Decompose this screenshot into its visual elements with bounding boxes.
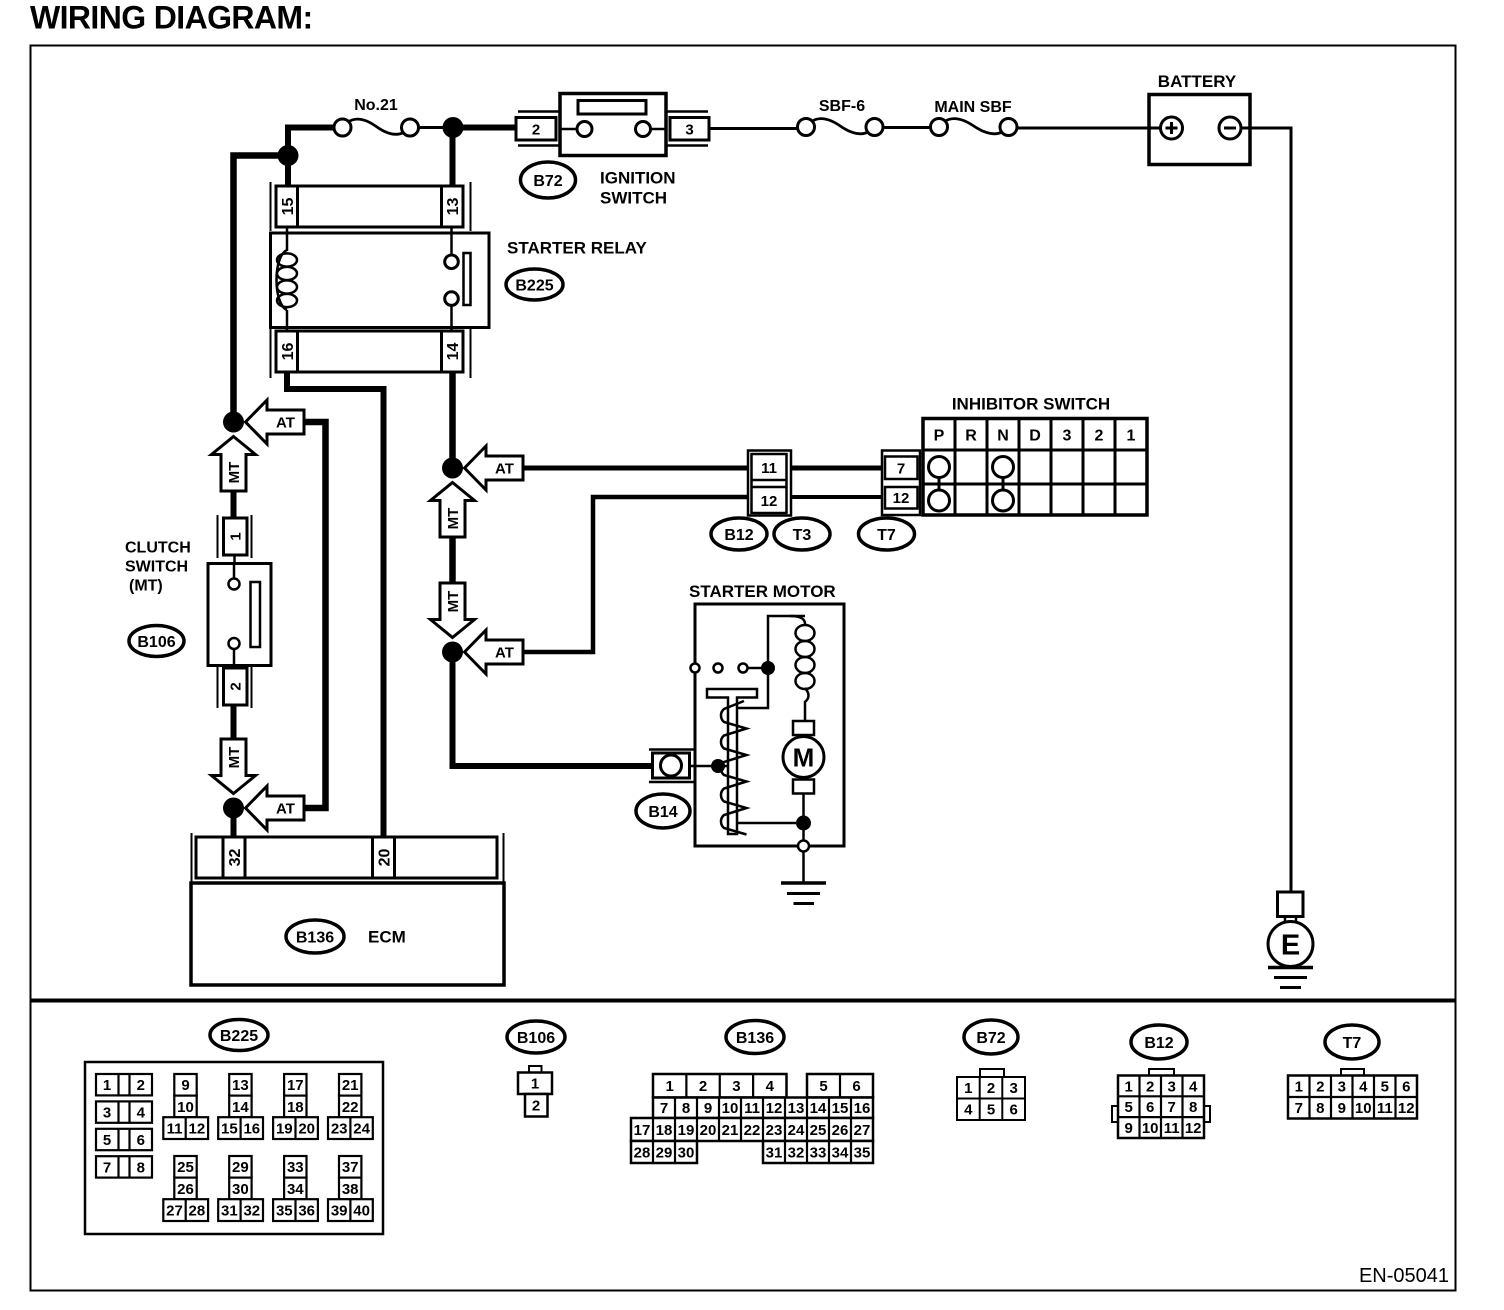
svg-text:4: 4 [1189, 1078, 1198, 1095]
svg-text:T3: T3 [793, 527, 812, 544]
svg-text:12: 12 [1398, 1100, 1415, 1117]
svg-text:B72: B72 [976, 1030, 1005, 1047]
svg-text:34: 34 [832, 1144, 849, 1161]
svg-text:5: 5 [987, 1102, 995, 1119]
svg-text:4: 4 [1359, 1079, 1368, 1096]
svg-text:14: 14 [232, 1099, 249, 1116]
svg-text:13: 13 [445, 198, 462, 216]
svg-text:34: 34 [287, 1181, 304, 1198]
svg-text:35: 35 [854, 1144, 871, 1161]
wire junction to ECM pin 32 [231, 808, 237, 840]
node junction AT/MT lower [442, 642, 463, 663]
svg-text:B136: B136 [296, 929, 334, 946]
wire branch to clutch column [234, 156, 289, 423]
svg-text:22: 22 [744, 1122, 761, 1139]
svg-text:40: 40 [353, 1203, 370, 1220]
wire ignition to SBF-6 [709, 127, 798, 130]
svg-text:2: 2 [987, 1080, 995, 1097]
svg-text:2: 2 [532, 1098, 540, 1115]
wire junction to plunger top [737, 672, 768, 708]
svg-text:7: 7 [1295, 1100, 1303, 1117]
svg-text:31: 31 [766, 1144, 783, 1161]
svg-text:17: 17 [634, 1122, 651, 1139]
svg-text:1: 1 [227, 532, 244, 540]
svg-text:STARTER RELAY: STARTER RELAY [507, 239, 647, 258]
svg-text:3: 3 [1168, 1078, 1176, 1095]
svg-text:12: 12 [893, 490, 910, 507]
svg-text:1: 1 [964, 1080, 972, 1097]
node junction motor ground [796, 816, 811, 831]
svg-text:3: 3 [103, 1105, 111, 1122]
svg-text:25: 25 [177, 1159, 194, 1176]
svg-text:AT: AT [276, 800, 295, 817]
connector B225 pinout [85, 1062, 383, 1234]
arrow AT clutch bottom [246, 786, 305, 830]
battery [1149, 95, 1250, 165]
svg-text:32: 32 [788, 1144, 805, 1161]
svg-text:20: 20 [700, 1122, 717, 1139]
arrow MT down to ECM junction [212, 739, 256, 794]
wire junction down to relay pin 13 [450, 131, 456, 190]
svg-text:STARTER MOTOR: STARTER MOTOR [689, 582, 836, 601]
svg-text:23: 23 [766, 1122, 783, 1139]
svg-text:ECM: ECM [368, 928, 406, 947]
ground starter motor [781, 881, 826, 885]
svg-text:5: 5 [1381, 1079, 1389, 1096]
svg-text:6: 6 [1010, 1102, 1018, 1119]
svg-text:2: 2 [1095, 427, 1104, 444]
wire fuse No.21 feed to relay pin 15 [288, 128, 334, 191]
connector T7 pins 7 12 [882, 451, 920, 516]
svg-text:No.21: No.21 [354, 97, 398, 114]
label B14 [636, 794, 690, 828]
arrow AT lower middle [465, 630, 524, 674]
node junction left feed [278, 145, 299, 166]
node junction AT/MT upper [442, 458, 463, 479]
svg-text:2: 2 [137, 1077, 145, 1094]
svg-text:IGNITION: IGNITION [600, 169, 676, 188]
plunger [707, 689, 757, 834]
connector B14 [649, 748, 694, 751]
svg-text:33: 33 [810, 1144, 827, 1161]
starter motor box [695, 604, 844, 846]
svg-text:16: 16 [243, 1121, 260, 1138]
svg-text:5: 5 [819, 1078, 827, 1095]
svg-text:R: R [965, 427, 977, 444]
wire pin1 to switch [233, 555, 236, 566]
svg-text:10: 10 [1142, 1120, 1159, 1137]
svg-text:5: 5 [103, 1132, 111, 1149]
svg-text:4: 4 [766, 1078, 775, 1095]
svg-text:3: 3 [732, 1078, 740, 1095]
svg-text:B106: B106 [517, 1030, 555, 1047]
svg-text:31: 31 [221, 1203, 238, 1220]
svg-text:21: 21 [342, 1077, 359, 1094]
connector rails clutch pin 1 [217, 515, 219, 558]
inhibitor switch contact circles P [929, 457, 950, 478]
svg-text:1: 1 [531, 1076, 539, 1093]
wire AT lower to inhibitor connector pin 12 [523, 497, 750, 652]
svg-text:15: 15 [280, 198, 297, 216]
fuse MAIN SBF [945, 119, 1004, 134]
wire plunger to motor ground node [737, 822, 796, 825]
svg-text:5: 5 [1125, 1099, 1133, 1116]
svg-text:3: 3 [1338, 1079, 1346, 1096]
svg-text:24: 24 [788, 1122, 805, 1139]
relay contacts [450, 227, 453, 255]
svg-text:7: 7 [897, 460, 905, 477]
svg-text:1: 1 [1125, 1078, 1133, 1095]
svg-text:21: 21 [722, 1122, 739, 1139]
svg-text:B14: B14 [648, 804, 677, 821]
svg-text:B225: B225 [220, 1028, 258, 1045]
svg-text:11: 11 [1164, 1120, 1180, 1137]
node junction clutch bottom [223, 798, 244, 819]
wire fuse to junction [419, 126, 448, 129]
pin 1 clutch switch [224, 518, 248, 555]
wire motor to ground [802, 794, 805, 842]
label B225 connector [210, 1020, 268, 1051]
svg-text:2: 2 [1316, 1079, 1324, 1096]
svg-text:(MT): (MT) [129, 577, 163, 594]
svg-text:12: 12 [1185, 1120, 1202, 1137]
svg-text:SWITCH: SWITCH [600, 189, 667, 208]
motor M [793, 721, 814, 735]
wire junction down to starter motor B14 [453, 652, 654, 766]
starter relay B225 coil-side connector pins 15 13 [270, 182, 272, 231]
wire MT section [449, 537, 456, 602]
starter motor contact circles [691, 664, 700, 673]
svg-text:15: 15 [832, 1100, 849, 1117]
label B12 [711, 518, 767, 550]
svg-text:7: 7 [1168, 1099, 1176, 1116]
wire contact junction to solenoid coil [768, 616, 805, 668]
starter relay connector pins 16 14 [270, 329, 272, 378]
svg-text:2: 2 [1146, 1078, 1154, 1095]
svg-text:B72: B72 [533, 173, 562, 190]
wire MT to clutch pin 1 [231, 491, 237, 520]
svg-text:38: 38 [342, 1181, 359, 1198]
label B136 connector [726, 1021, 784, 1054]
connector B136 pinout [653, 1074, 787, 1098]
svg-text:AT: AT [276, 414, 295, 431]
svg-text:12: 12 [766, 1100, 783, 1117]
label B225 relay [506, 269, 563, 300]
svg-text:18: 18 [656, 1122, 673, 1139]
svg-text:19: 19 [678, 1122, 695, 1139]
svg-text:2: 2 [699, 1078, 707, 1095]
connector B106 pinout [529, 1066, 542, 1073]
ignition switch body B72 [560, 94, 666, 156]
svg-text:8: 8 [137, 1159, 145, 1176]
svg-text:P: P [934, 427, 945, 444]
label B72 [521, 162, 576, 198]
wire AT to inhibitor connector pin 11 [523, 466, 750, 471]
svg-text:35: 35 [276, 1203, 293, 1220]
svg-text:6: 6 [137, 1132, 145, 1149]
label B106 clutch [129, 626, 184, 657]
svg-text:EN-05041: EN-05041 [1359, 1265, 1449, 1287]
separator line [31, 999, 1456, 1003]
svg-text:9: 9 [181, 1077, 189, 1094]
svg-text:19: 19 [276, 1121, 293, 1138]
svg-text:29: 29 [656, 1144, 673, 1161]
svg-text:INHIBITOR SWITCH: INHIBITOR SWITCH [952, 395, 1110, 414]
svg-text:1: 1 [666, 1078, 674, 1095]
svg-text:M: M [793, 742, 815, 772]
svg-text:MT: MT [226, 747, 243, 769]
connector rails ignition pin 2 [518, 110, 560, 113]
svg-text:1: 1 [1127, 427, 1136, 444]
svg-text:T7: T7 [877, 527, 896, 544]
svg-text:11: 11 [167, 1121, 183, 1138]
wire connector T3 to T7 row 12 [789, 495, 886, 499]
pin 2 ignition switch [516, 118, 556, 141]
pin 2 clutch switch [224, 668, 248, 705]
svg-text:14: 14 [810, 1100, 827, 1117]
connector rails clutch pin 2 [217, 665, 219, 708]
wire relay pin 16 to ECM pin 20 [287, 372, 384, 840]
svg-text:17: 17 [287, 1077, 304, 1094]
arrow MT down into clutch [212, 437, 256, 492]
clutch switch body B106 [208, 564, 271, 666]
label B12 connector [1131, 1025, 1187, 1059]
wire MAIN SBF to battery [1017, 127, 1150, 130]
svg-text:30: 30 [232, 1181, 249, 1198]
svg-text:AT: AT [495, 460, 514, 477]
svg-text:14: 14 [445, 343, 462, 361]
label B72 connector [964, 1020, 1018, 1054]
svg-text:7: 7 [660, 1100, 668, 1117]
svg-text:3: 3 [685, 121, 693, 138]
node junction at ignition feed [443, 117, 464, 138]
arrow MT down middle [431, 583, 475, 638]
svg-text:27: 27 [854, 1122, 871, 1139]
svg-text:4: 4 [964, 1102, 973, 1119]
svg-text:CLUTCH: CLUTCH [125, 539, 191, 556]
label T7 connector [1325, 1025, 1379, 1059]
wire battery negative to ground E [1241, 128, 1291, 893]
svg-text:T7: T7 [1343, 1035, 1362, 1052]
label T3 [774, 518, 830, 550]
svg-text:B136: B136 [736, 1030, 774, 1047]
svg-text:1: 1 [103, 1077, 111, 1094]
svg-text:13: 13 [788, 1100, 805, 1117]
svg-text:4: 4 [137, 1105, 146, 1122]
label T7 [859, 518, 915, 550]
wire SBF-6 to MAIN SBF [883, 126, 931, 129]
svg-text:22: 22 [342, 1099, 359, 1116]
svg-text:2: 2 [227, 682, 244, 690]
connector B72 pinout [980, 1069, 1004, 1077]
node junction solenoid plunger [711, 759, 725, 773]
svg-text:36: 36 [298, 1203, 315, 1220]
svg-text:20: 20 [298, 1121, 315, 1138]
svg-text:6: 6 [1146, 1099, 1154, 1116]
svg-text:MT: MT [445, 508, 462, 530]
arrow MT up middle [431, 483, 475, 538]
svg-text:1: 1 [1295, 1079, 1303, 1096]
svg-text:MT: MT [445, 591, 462, 613]
svg-text:B106: B106 [137, 634, 175, 651]
svg-text:32: 32 [227, 849, 244, 867]
svg-text:20: 20 [376, 849, 393, 867]
svg-text:MAIN SBF: MAIN SBF [934, 99, 1012, 116]
svg-text:24: 24 [353, 1121, 370, 1138]
ground E [1278, 892, 1304, 917]
svg-text:29: 29 [232, 1159, 249, 1176]
svg-text:SBF-6: SBF-6 [819, 98, 865, 115]
svg-text:26: 26 [177, 1181, 194, 1198]
svg-text:10: 10 [1355, 1100, 1372, 1117]
node junction contact to coil [761, 661, 775, 675]
wire relay pin 14 down [449, 372, 456, 468]
relay coil [286, 227, 289, 251]
svg-text:13: 13 [232, 1077, 249, 1094]
svg-text:33: 33 [287, 1159, 304, 1176]
svg-text:11: 11 [1377, 1100, 1393, 1117]
pin 3 ignition switch [670, 118, 709, 141]
svg-text:10: 10 [177, 1099, 194, 1116]
svg-text:8: 8 [1189, 1099, 1197, 1116]
svg-text:B12: B12 [724, 527, 753, 544]
svg-text:16: 16 [280, 343, 297, 361]
label B136 ECM [286, 920, 344, 953]
svg-text:16: 16 [854, 1100, 871, 1117]
svg-text:12: 12 [761, 493, 778, 510]
svg-text:12: 12 [189, 1121, 206, 1138]
fuse SBF-6 [812, 119, 870, 134]
svg-text:11: 11 [744, 1100, 760, 1117]
svg-text:28: 28 [189, 1203, 206, 1220]
svg-text:28: 28 [634, 1144, 651, 1161]
solenoid coil [790, 616, 805, 626]
svg-text:23: 23 [331, 1121, 348, 1138]
svg-text:10: 10 [722, 1100, 739, 1117]
ECM body B136 [191, 883, 504, 985]
svg-text:9: 9 [704, 1100, 712, 1117]
arrow AT upper middle [465, 446, 524, 490]
svg-text:MT: MT [226, 462, 243, 484]
svg-text:2: 2 [532, 121, 540, 138]
fuse No.21 [348, 119, 405, 134]
svg-text:6: 6 [852, 1078, 860, 1095]
svg-text:BATTERY: BATTERY [1158, 72, 1237, 91]
svg-text:6: 6 [1402, 1079, 1410, 1096]
svg-text:WIRING DIAGRAM:: WIRING DIAGRAM: [30, 0, 313, 36]
svg-text:25: 25 [810, 1122, 827, 1139]
connector T7 pinout [1341, 1069, 1364, 1076]
svg-text:9: 9 [1338, 1100, 1346, 1117]
svg-text:18: 18 [287, 1099, 304, 1116]
wire B14 into solenoid [690, 765, 729, 768]
svg-text:B12: B12 [1144, 1035, 1173, 1052]
wire AT bypass [304, 422, 326, 808]
svg-text:B225: B225 [515, 277, 553, 294]
svg-text:26: 26 [832, 1122, 849, 1139]
svg-text:7: 7 [103, 1159, 111, 1176]
svg-text:15: 15 [221, 1121, 238, 1138]
svg-text:8: 8 [1316, 1100, 1324, 1117]
svg-text:N: N [997, 427, 1009, 444]
inhibitor switch contact circles N [993, 457, 1014, 478]
wire connector T3 to T7 row 11-7 [789, 466, 886, 471]
plunger spring [721, 701, 747, 835]
wire clutch pin 2 to MT arrow [231, 705, 237, 738]
svg-text:9: 9 [1125, 1120, 1133, 1137]
svg-text:E: E [1281, 929, 1300, 961]
svg-text:3: 3 [1063, 427, 1072, 444]
inhibitor switch table [923, 419, 1147, 516]
svg-text:8: 8 [682, 1100, 690, 1117]
svg-text:11: 11 [761, 460, 777, 477]
node junction clutch top [223, 412, 244, 433]
label B106 connector [507, 1021, 565, 1053]
svg-text:39: 39 [331, 1203, 348, 1220]
ECM connector pins 32 20 [191, 833, 193, 882]
svg-text:37: 37 [342, 1159, 359, 1176]
svg-text:SWITCH: SWITCH [125, 558, 188, 575]
terminal circle starter motor ground [798, 841, 809, 852]
starter relay B225 body [271, 233, 490, 328]
connector rails ignition pin 3 [666, 110, 708, 113]
svg-text:27: 27 [166, 1203, 183, 1220]
svg-text:32: 32 [243, 1203, 260, 1220]
connector B12 pinout [1149, 1069, 1174, 1076]
svg-text:AT: AT [495, 644, 514, 661]
svg-text:3: 3 [1010, 1080, 1018, 1097]
arrow AT clutch top [246, 400, 305, 444]
connector B12/T3 pins 11 12 [748, 451, 791, 516]
wire junction to ignition switch pin 2 [453, 125, 517, 131]
svg-text:D: D [1029, 427, 1041, 444]
svg-text:30: 30 [678, 1144, 695, 1161]
